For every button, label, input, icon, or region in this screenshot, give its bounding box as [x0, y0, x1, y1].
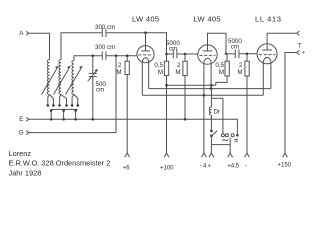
terminal -4 left	[202, 153, 207, 157]
wire cap to anode rail 1	[106, 33, 166, 54]
coil tap wires	[48, 95, 50, 106]
svg-text:0,5: 0,5	[154, 62, 163, 69]
rail filament top (y88.6)	[149, 88, 271, 90]
variometer arrow 2	[54, 66, 71, 95]
svg-text:M: M	[219, 69, 224, 76]
terminal T top	[297, 31, 300, 35]
svg-text:M: M	[175, 69, 180, 76]
wire selector to E	[50, 111, 52, 120]
terminal +150	[278, 153, 292, 168]
svg-text:LW 405: LW 405	[194, 15, 221, 24]
svg-text:Jahr 1928: Jahr 1928	[9, 168, 42, 177]
variable capacitor 500cm	[88, 56, 107, 120]
svg-text:+100: +100	[160, 165, 174, 171]
rail +100 (y85)	[167, 84, 216, 86]
jack contacts	[221, 134, 238, 142]
terminal A	[19, 30, 29, 37]
bus G to grid line	[29, 56, 116, 133]
svg-text:cm: cm	[231, 44, 239, 51]
svg-text:+: +	[302, 50, 306, 56]
wire A to coil L1	[29, 33, 50, 59]
filament legs V2	[203, 63, 205, 153]
variometer arrow 3	[66, 66, 83, 95]
svg-text:cm: cm	[96, 87, 104, 94]
bus E	[29, 119, 238, 135]
tap contact studs	[47, 104, 50, 107]
svg-text:+150: +150	[278, 162, 292, 168]
node E dots	[50, 118, 53, 121]
capacitor 300cm (grid, lower)	[95, 44, 115, 60]
node grid leak R1	[126, 54, 129, 57]
terminal +4,5 left	[228, 145, 233, 158]
svg-text:T: T	[298, 44, 302, 50]
filament legs V1	[141, 62, 143, 96]
wire link to jack row	[211, 138, 230, 145]
svg-text:300 cm: 300 cm	[95, 24, 115, 31]
tube V3 LL413	[255, 15, 282, 64]
svg-text:E.R.W.O. 328 Ordensmeister 2: E.R.W.O. 328 Ordensmeister 2	[9, 159, 111, 168]
svg-text:0,5: 0,5	[215, 62, 224, 69]
resistor R2 0,5M (anode V1)	[154, 54, 168, 153]
node grid V3	[246, 53, 249, 56]
resistor R3 2M (grid leak V2)	[175, 54, 187, 119]
wire T plus to +150	[285, 53, 297, 154]
svg-text:M: M	[116, 69, 121, 76]
svg-text:+6: +6	[123, 165, 131, 171]
node anode V2	[225, 53, 227, 55]
node grid V2	[184, 53, 187, 56]
svg-text:E: E	[19, 116, 23, 123]
svg-text:LL 413: LL 413	[255, 15, 282, 24]
terminal +4,5 right	[245, 153, 250, 157]
tube V2 LW405	[194, 15, 221, 65]
switch S1	[210, 130, 217, 153]
svg-text:G: G	[19, 129, 24, 136]
svg-text:300 cm: 300 cm	[95, 44, 115, 51]
resistor R4 0,5M (anode V2)	[215, 54, 229, 85]
title block	[9, 149, 111, 177]
choke Dr	[209, 107, 220, 116]
node G net	[115, 54, 118, 57]
svg-text:Lorenz: Lorenz	[9, 149, 32, 158]
selector contacts	[50, 109, 53, 112]
terminal +6	[123, 153, 131, 171]
selector bar	[51, 108, 78, 110]
capacitor 300cm (feedback, top)	[95, 24, 115, 37]
resistor R5 2M (grid leak V3)	[237, 54, 249, 153]
node anode V1	[144, 31, 147, 34]
tube V1 LW405	[132, 15, 159, 63]
terminal G	[19, 129, 29, 136]
svg-text:-: -	[245, 164, 247, 170]
resistor R1 2M (grid leak V1)	[116, 56, 129, 153]
terminal +100	[160, 153, 174, 171]
wire anode V3 to T terminal	[267, 33, 297, 44]
svg-text:-4+: -4+	[200, 163, 212, 169]
node tuning cap	[92, 54, 95, 57]
coil L2 (grid coil 1)	[59, 60, 61, 95]
terminal T plus	[297, 50, 306, 56]
svg-text:2: 2	[239, 62, 243, 69]
svg-text:M: M	[158, 69, 163, 76]
svg-text:2: 2	[177, 62, 181, 69]
wire cap to grid V1	[106, 55, 137, 57]
wire anode V1 up	[145, 33, 147, 46]
coil L1 (antenna coil)	[47, 60, 49, 95]
svg-text:M: M	[237, 69, 242, 76]
terminal E	[19, 116, 29, 123]
capacitor 5000cm (coupling 1)	[166, 40, 198, 58]
wire coil L2 top to feedback cap	[61, 33, 102, 60]
svg-text:+4,5: +4,5	[227, 164, 240, 170]
branch wire to jack	[211, 98, 223, 133]
coil L3 (grid coil 2)	[72, 61, 74, 95]
variometer arrow 1	[42, 66, 59, 95]
capacitor 5000cm (coupling 2)	[226, 38, 257, 58]
rail filament bottom (y95.3)	[142, 94, 263, 96]
choke feed wire	[210, 85, 212, 107]
node coupling 1	[165, 53, 168, 56]
svg-text:cm: cm	[169, 46, 177, 53]
svg-text:Dr: Dr	[214, 109, 221, 116]
terminal -4 right	[209, 153, 214, 157]
svg-text:2: 2	[118, 62, 122, 69]
wire coil L3 top to grid line	[74, 56, 102, 61]
wire anode V2 to coupling 2	[208, 33, 227, 54]
svg-text:LW 405: LW 405	[132, 15, 159, 24]
wire choke to switch	[210, 115, 212, 131]
filament legs V3	[262, 62, 264, 95]
